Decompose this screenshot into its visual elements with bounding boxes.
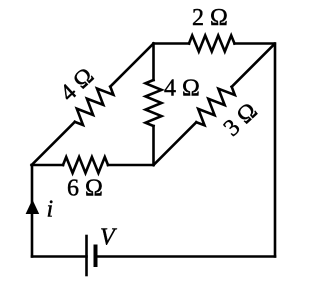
battery V short plate (94, 247, 98, 266)
current arrow i head (26, 200, 40, 215)
battery V long plate (85, 236, 88, 275)
wire 4-ohm diagonal resistor to node B (110, 44, 153, 87)
wire bottom-left corner to battery positive plate (32, 255, 87, 258)
wire node B to 2-ohm resistor (154, 42, 190, 45)
resistor R 3-ohm diagonal zigzag (196, 87, 235, 126)
resistor R 4-ohm diagonal zigzag (75, 87, 114, 125)
svg-text:4 Ω: 4 Ω (164, 76, 200, 102)
wire battery negative plate to bottom-right corner (97, 255, 275, 258)
resistor R 6-ohm zigzag (63, 157, 108, 173)
svg-text:2 Ω: 2 Ω (192, 5, 228, 31)
wire 2-ohm resistor to node D (235, 42, 275, 45)
wire node A to 6-ohm resistor (32, 164, 63, 167)
svg-text:V: V (100, 225, 117, 251)
svg-text:6 Ω: 6 Ω (67, 176, 103, 202)
wire node B to 4-ohm vertical resistor (152, 44, 155, 81)
wire right side node D down to bottom-right corner (274, 44, 277, 257)
wire node C to 3-ohm diagonal resistor (154, 122, 197, 165)
wire node A to 4-ohm diagonal resistor lead (32, 122, 75, 165)
wire 3-ohm diagonal resistor to node D (232, 44, 275, 87)
wire left side node A down to bottom-left corner (31, 165, 34, 257)
resistor R 4-ohm vertical zigzag (146, 80, 162, 126)
svg-text:i: i (47, 197, 54, 223)
wire 4-ohm vertical resistor to node C (152, 126, 155, 165)
wire 6-ohm resistor to node C (108, 164, 154, 167)
resistor R 2-ohm zigzag (189, 36, 235, 52)
